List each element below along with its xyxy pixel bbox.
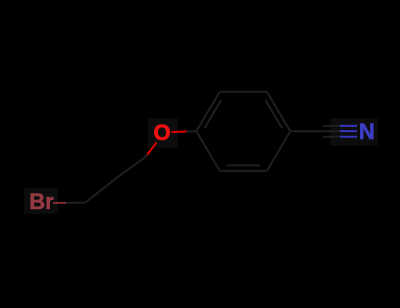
nitrile triple bond top line nitrogen half bbox=[340, 125, 357, 127]
nitrile triple bond middle line carbon half bbox=[323, 130, 340, 132]
svg-text:N: N bbox=[359, 119, 375, 144]
wire ring edge TR-R bbox=[267, 92, 291, 132]
wire ring inner double bond TR-R bbox=[266, 100, 283, 128]
wire C1 to Br, carbon half bbox=[66, 202, 85, 204]
wire ring edge L-TL bbox=[196, 92, 220, 132]
benzene ring C1-C6 bbox=[196, 92, 290, 171]
wire O to ring, carbon half bbox=[187, 130, 197, 132]
nitrile triple bond bottom line carbon half bbox=[323, 136, 340, 138]
wire ring to nitrile C, carbon bbox=[290, 130, 323, 132]
svg-text:O: O bbox=[153, 120, 170, 145]
wire O to ring, red half bbox=[172, 131, 187, 134]
wire ring inner double bond BR-BL bbox=[227, 164, 260, 166]
faint compression halo around nitrile and N bbox=[330, 118, 378, 146]
wire C3-C2 bbox=[115, 158, 145, 180]
nitrile triple bond bottom line nitrogen half bbox=[340, 136, 357, 138]
wire ring edge R-BR bbox=[267, 131, 291, 171]
svg-text:Br: Br bbox=[29, 189, 54, 214]
faint compression halo around Br bbox=[24, 188, 58, 214]
wire O to C3, red half bbox=[147, 143, 157, 156]
wire ring inner double bond L-TL bbox=[205, 100, 222, 128]
wire ring edge BL-L bbox=[196, 131, 220, 171]
wire O to C3, carbon half bbox=[144, 155, 147, 158]
wire C1 to Br, bromine half bbox=[53, 202, 66, 204]
wire ring edge TL-TR bbox=[220, 91, 267, 93]
nitrile triple bond C#N top line carbon half bbox=[323, 125, 340, 127]
nitrile triple bond middle line nitrogen half bbox=[340, 130, 357, 132]
wire ring edge BR-BL bbox=[220, 170, 267, 172]
wire C2-C1 bbox=[85, 180, 115, 203]
faint compression halo around O bbox=[148, 118, 178, 148]
